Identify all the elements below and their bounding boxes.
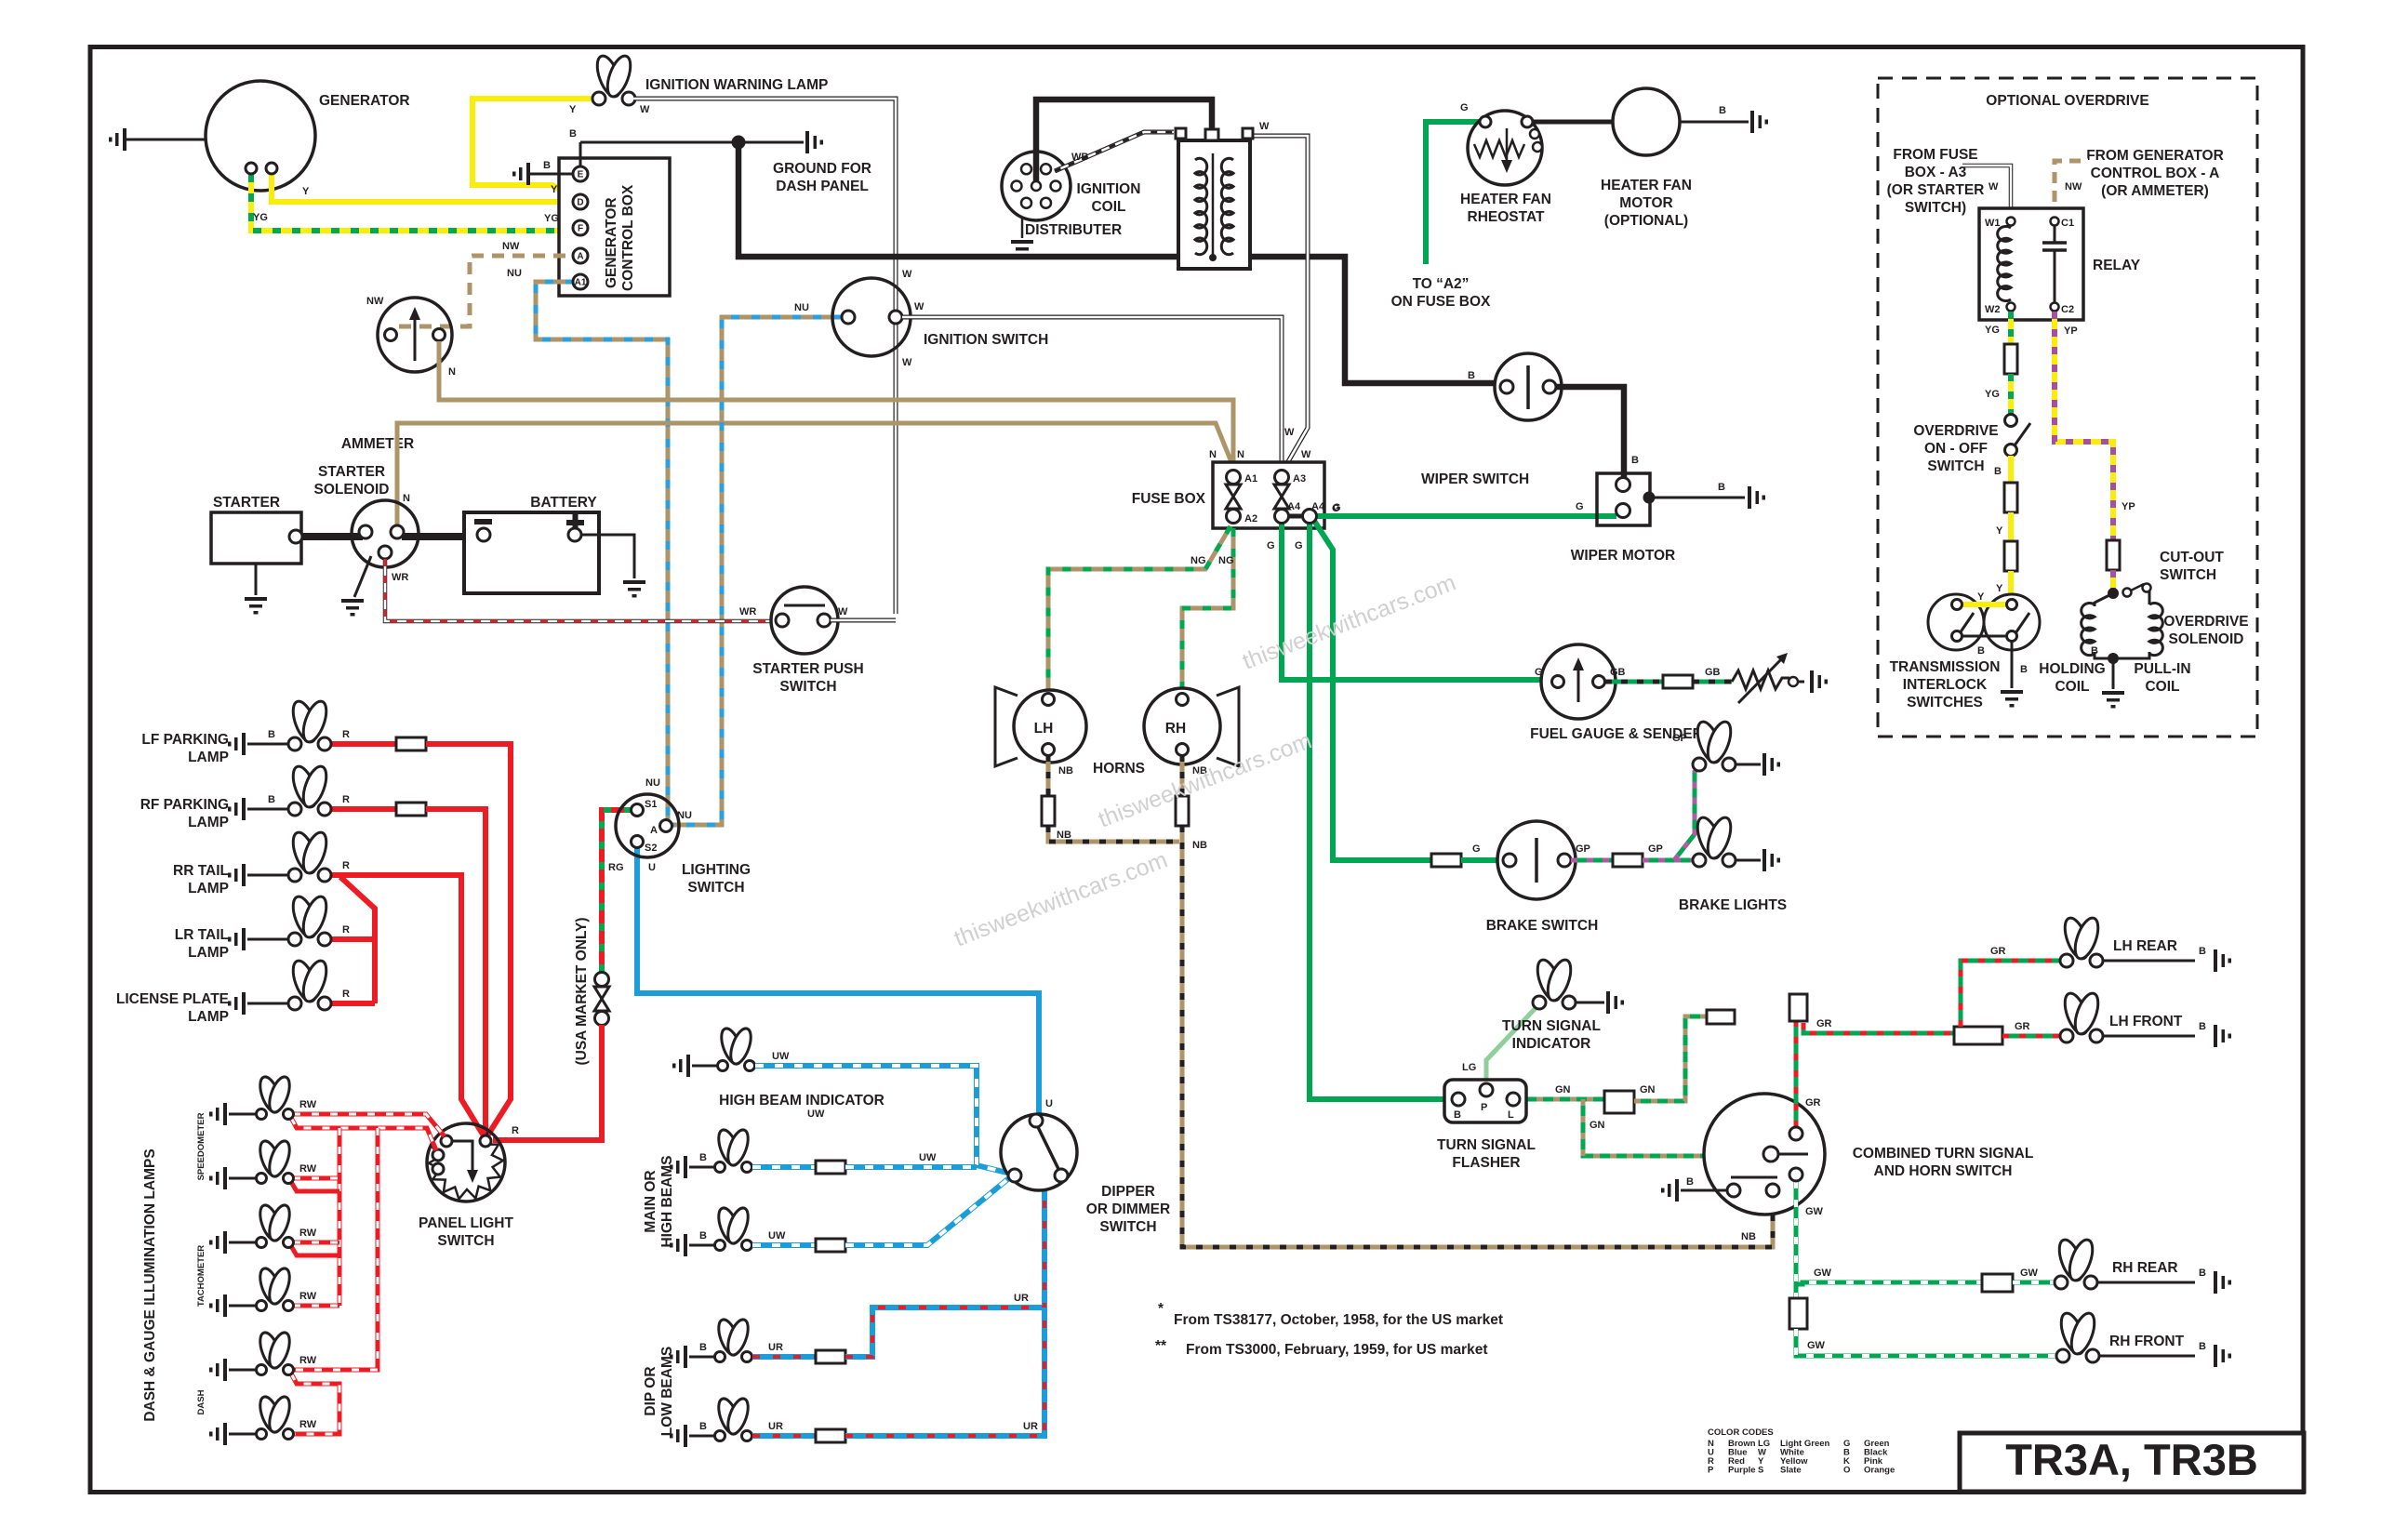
svg-text:C2: C2	[2061, 304, 2074, 315]
main beam lamp row 1	[670, 1127, 752, 1178]
label from fuse box	[1887, 147, 1985, 216]
wire GR combined switch up to LH lamps	[1789, 946, 2063, 1127]
svg-text:GW: GW	[1805, 1206, 1824, 1217]
relay capacitor C1-C2	[2054, 226, 2056, 242]
wire WR solenoid to starter push switch	[385, 559, 778, 621]
svg-text:B: B	[1454, 1109, 1461, 1121]
svg-text:RH: RH	[1165, 721, 1186, 737]
svg-text:G: G	[1535, 667, 1543, 678]
svg-text:B: B	[699, 1152, 707, 1163]
svg-text:GP: GP	[1672, 733, 1687, 744]
svg-text:TURN SIGNAL: TURN SIGNAL	[1502, 1018, 1601, 1034]
svg-text:B: B	[1631, 455, 1639, 466]
dash lamp row 3	[209, 1202, 317, 1254]
svg-text:W1: W1	[1985, 218, 2001, 229]
svg-text:RELAY: RELAY	[2093, 258, 2141, 273]
svg-text:OVERDRIVE: OVERDRIVE	[1913, 423, 1998, 439]
svg-text:SPEEDOMETER: SPEEDOMETER	[196, 1112, 206, 1180]
dash lamp row 4	[209, 1266, 317, 1317]
wire B wiper motor ground	[1655, 482, 1765, 509]
wire GN flasher L to combined switch	[1520, 1010, 1765, 1156]
svg-text:NU: NU	[507, 268, 522, 279]
svg-text:HEATER FAN: HEATER FAN	[1601, 178, 1692, 193]
svg-text:SOLENOID: SOLENOID	[2169, 631, 2244, 647]
fuse on brake feed	[1431, 854, 1461, 867]
footnotes	[1155, 1301, 1503, 1358]
svg-text:N: N	[448, 366, 456, 378]
wire YP relay C2 to cut-out switch	[2055, 312, 2135, 541]
svg-text:B: B	[1468, 370, 1475, 381]
svg-text:MAIN OR: MAIN OR	[643, 1170, 658, 1232]
dash lamp row 5	[209, 1330, 317, 1381]
RR tail lamp	[173, 830, 331, 896]
svg-text:(OR AMMETER): (OR AMMETER)	[2101, 183, 2209, 199]
wire YG fuse to overdrive switch	[1985, 374, 2011, 416]
svg-text:IGNITION WARNING LAMP: IGNITION WARNING LAMP	[645, 77, 828, 93]
svg-text:RW: RW	[299, 1291, 317, 1302]
svg-text:NU: NU	[645, 777, 660, 789]
dip beam lamp row 2	[670, 1396, 752, 1447]
wire Y generator to D	[268, 172, 575, 202]
svg-text:ON - OFF: ON - OFF	[1924, 441, 1988, 457]
svg-text:SWITCHES: SWITCHES	[1907, 695, 1983, 710]
svg-text:G: G	[1333, 502, 1341, 513]
svg-text:LR TAIL: LR TAIL	[175, 927, 229, 943]
svg-text:A4: A4	[1287, 501, 1301, 512]
svg-text:RW: RW	[299, 1163, 317, 1175]
ignition switch	[832, 278, 1048, 356]
svg-text:NG: NG	[1218, 555, 1234, 566]
svg-text:**: **	[1155, 1338, 1167, 1354]
svg-text:COLOR CODES: COLOR CODES	[1708, 1427, 1774, 1438]
fuse box terminals and fuses	[1209, 449, 1341, 524]
svg-text:YG: YG	[1985, 389, 2000, 400]
svg-text:GR: GR	[1990, 946, 2006, 957]
svg-text:DIPPER: DIPPER	[1101, 1184, 1155, 1200]
svg-text:W: W	[914, 301, 924, 312]
svg-text:N: N	[1209, 449, 1217, 460]
wire UR dip row1	[752, 1177, 1056, 1363]
wire W ignition switch east to A3	[902, 301, 1295, 470]
svg-text:WIPER SWITCH: WIPER SWITCH	[1421, 471, 1529, 487]
svg-text:SWITCH): SWITCH)	[1905, 200, 1966, 216]
svg-text:LAMP: LAMP	[188, 750, 229, 765]
svg-text:WR: WR	[392, 572, 408, 583]
svg-text:B: B	[1977, 645, 1985, 657]
svg-text:NW: NW	[2065, 181, 2082, 192]
svg-text:B: B	[2199, 946, 2206, 957]
svg-text:A4: A4	[1311, 501, 1325, 512]
distributor	[1002, 152, 1122, 258]
wire YG generator to F	[251, 174, 574, 231]
svg-text:Y: Y	[302, 186, 310, 197]
wire NB RH horn down to combined switch	[1176, 755, 1773, 1247]
overdrive solenoid	[2039, 591, 2248, 709]
thick cable solenoid to battery	[402, 533, 480, 540]
svg-text:P: P	[1708, 1466, 1714, 1476]
svg-text:BOX - A3: BOX - A3	[1905, 165, 1967, 180]
turn signal flasher	[1437, 1080, 1536, 1171]
svg-text:B: B	[1994, 466, 2002, 477]
combined turn signal and horn switch	[1704, 1094, 2033, 1215]
LH FRONT lamp	[2060, 990, 2231, 1047]
wire WB distributor to coil	[1055, 132, 1174, 171]
svg-text:GN: GN	[1640, 1084, 1656, 1095]
relay	[1979, 208, 2141, 320]
svg-text:RW: RW	[299, 1355, 317, 1366]
svg-text:HOLDING: HOLDING	[2039, 661, 2105, 677]
svg-text:R: R	[342, 924, 350, 936]
RH horn	[1144, 687, 1239, 766]
svg-text:S2: S2	[645, 843, 657, 854]
svg-text:SWITCH: SWITCH	[687, 880, 744, 896]
wire NW: A terminal to ammeter	[366, 241, 574, 330]
svg-text:LOW BEAMS: LOW BEAMS	[659, 1347, 675, 1436]
svg-text:BRAKE LIGHTS: BRAKE LIGHTS	[1679, 897, 1787, 913]
LF parking lamp	[141, 698, 331, 765]
svg-text:UR: UR	[768, 1342, 783, 1353]
wire NW to relay C1	[2055, 161, 2088, 218]
svg-text:B: B	[268, 729, 275, 740]
wire W coil to A3	[1250, 121, 1311, 470]
dipper switch	[1001, 1114, 1170, 1235]
svg-text:COMBINED TURN SIGNAL: COMBINED TURN SIGNAL	[1853, 1146, 2034, 1162]
wire R RR tail to panel switch	[331, 860, 485, 1137]
svg-text:U: U	[1045, 1098, 1053, 1109]
svg-text:RF PARKING: RF PARKING	[140, 797, 229, 813]
svg-text:IGNITION: IGNITION	[1077, 181, 1141, 197]
svg-text:RW: RW	[299, 1419, 317, 1430]
svg-text:TO “A2”: TO “A2”	[1413, 276, 1470, 292]
svg-text:R: R	[342, 729, 350, 740]
wire B ground for E terminal	[512, 160, 574, 185]
svg-text:CONTROL BOX - A: CONTROL BOX - A	[2091, 166, 2220, 181]
svg-text:RW: RW	[299, 1228, 317, 1239]
svg-text:G: G	[1472, 843, 1481, 855]
svg-text:FROM FUSE: FROM FUSE	[1893, 147, 1977, 163]
title box TR3A TR3B	[1960, 1433, 2304, 1492]
svg-text:UR: UR	[768, 1421, 783, 1432]
svg-text:L: L	[1508, 1109, 1514, 1121]
dash lamp row 6	[209, 1394, 317, 1445]
LH horn	[995, 687, 1086, 766]
svg-text:DIP OR: DIP OR	[643, 1366, 658, 1415]
wire N ammeter to fuse A1	[439, 341, 1233, 470]
wire B motor to ground	[1680, 105, 1768, 133]
svg-text:GW: GW	[1807, 1340, 1826, 1351]
svg-text:GP: GP	[1576, 843, 1590, 855]
svg-text:*: *	[1158, 1301, 1164, 1317]
LR tail lamp	[175, 894, 331, 961]
svg-text:GW: GW	[1814, 1268, 1832, 1279]
svg-text:A1: A1	[575, 278, 587, 288]
RH REAR lamp	[2055, 1237, 2231, 1294]
svg-text:LAMP: LAMP	[188, 1009, 229, 1025]
svg-text:STARTER: STARTER	[318, 464, 385, 480]
svg-text:R: R	[342, 860, 350, 871]
node junction dash ground	[732, 136, 746, 150]
lighting switch	[616, 794, 751, 896]
svg-text:NB: NB	[1741, 1231, 1756, 1242]
svg-text:D: D	[577, 198, 583, 208]
USA market fuse bowtie	[594, 973, 609, 1026]
svg-text:TRANSMISSION: TRANSMISSION	[1890, 659, 2001, 675]
svg-text:N: N	[403, 493, 410, 504]
green G wire A4L down to fuel gauge	[1267, 523, 1553, 680]
svg-text:GB: GB	[1705, 667, 1721, 678]
svg-text:OR DIMMER: OR DIMMER	[1086, 1201, 1170, 1217]
svg-text:DASH: DASH	[196, 1389, 206, 1414]
svg-text:R: R	[512, 1125, 519, 1136]
svg-text:W: W	[1989, 181, 1999, 192]
svg-text:F: F	[578, 224, 583, 234]
svg-text:RW: RW	[299, 1099, 317, 1110]
high beam indicator	[672, 1026, 885, 1120]
svg-text:COIL: COIL	[2145, 679, 2179, 695]
svg-text:A3: A3	[1293, 473, 1306, 485]
svg-text:RHEOSTAT: RHEOSTAT	[1468, 209, 1545, 225]
svg-text:W: W	[1301, 449, 1311, 460]
svg-text:LAMP: LAMP	[188, 815, 229, 830]
wire GP brake switch to brake lights	[1571, 733, 1701, 867]
svg-text:LIGHTING: LIGHTING	[682, 862, 751, 878]
battery	[464, 495, 599, 593]
svg-text:G: G	[1460, 102, 1469, 113]
generator control box	[559, 158, 670, 296]
transmission interlock switches	[1890, 591, 2040, 710]
svg-text:NG: NG	[1190, 555, 1206, 566]
svg-text:WR: WR	[739, 606, 756, 617]
wire RW row1 to panel switch	[291, 1114, 445, 1150]
svg-text:LG: LG	[1462, 1062, 1476, 1073]
wire R fuse to panel light switch	[493, 1025, 602, 1140]
cut-out switch	[2108, 550, 2224, 599]
svg-text:W: W	[902, 357, 912, 368]
svg-text:LAMP: LAMP	[188, 881, 229, 896]
svg-text:HORNS: HORNS	[1093, 761, 1145, 777]
svg-text:NU: NU	[794, 302, 809, 313]
svg-text:INDICATOR: INDICATOR	[1512, 1036, 1591, 1052]
wire GW combined switch down to RH lamps	[1789, 1181, 2058, 1356]
ignition warning lamp	[592, 53, 828, 105]
wire UW main row2	[752, 1177, 1010, 1252]
RF parking lamp	[140, 763, 331, 830]
svg-text:NB: NB	[1057, 830, 1071, 841]
green G wire A4 to wiper motor	[1316, 513, 1616, 519]
svg-text:YG: YG	[1985, 325, 2000, 336]
dip beam lamp row 1	[670, 1317, 752, 1368]
svg-text:From TS3000, February, 1959, f: From TS3000, February, 1959, for US mark…	[1186, 1342, 1488, 1358]
svg-text:U: U	[648, 862, 656, 873]
svg-text:AND HORN SWITCH: AND HORN SWITCH	[1874, 1163, 2013, 1179]
green G wire A4R diagonal down to brake switch	[1314, 503, 1432, 860]
svg-text:Orange: Orange	[1864, 1466, 1895, 1476]
wire W starter push switch to ignition (short link)	[831, 618, 896, 623]
svg-text:A1: A1	[1244, 473, 1257, 485]
svg-text:TR3A, TR3B: TR3A, TR3B	[2005, 1435, 2258, 1484]
svg-text:Y: Y	[1977, 591, 1985, 603]
svg-text:PANEL LIGHT: PANEL LIGHT	[419, 1215, 513, 1231]
svg-text:A2: A2	[1244, 513, 1257, 524]
turn signal indicator lamp	[1502, 957, 1624, 1052]
license plate lamp	[116, 958, 331, 1025]
svg-text:COIL: COIL	[1091, 199, 1125, 215]
svg-text:CONTROL BOX: CONTROL BOX	[620, 184, 636, 291]
svg-text:DISTRIBUTER: DISTRIBUTER	[1025, 222, 1122, 238]
svg-text:LH REAR: LH REAR	[2113, 938, 2177, 954]
wire UW indicator to dipper	[755, 1066, 1011, 1174]
svg-text:TURN SIGNAL: TURN SIGNAL	[1437, 1137, 1536, 1153]
wire NB LH horn down	[1042, 755, 1179, 842]
wire R tail lamp chain	[331, 877, 375, 1003]
dash lamp row 2	[209, 1138, 317, 1189]
svg-text:MOTOR: MOTOR	[1619, 195, 1672, 211]
svg-text:GR: GR	[2015, 1021, 2030, 1032]
svg-text:SWITCH: SWITCH	[437, 1233, 494, 1249]
wire NU: A1 terminal to lighting switch A	[507, 268, 668, 820]
svg-text:RH FRONT: RH FRONT	[2109, 1334, 2185, 1349]
wire Y switch to fuse to interlock	[1996, 456, 2017, 601]
wire R LF parking to panel switch	[331, 729, 511, 1137]
wire LG flasher P to indicator	[1462, 1008, 1536, 1084]
wire UW main row1	[752, 1152, 977, 1174]
thick black B wire: junction down and east to wiper switch	[738, 142, 1500, 383]
svg-text:C1: C1	[2061, 218, 2074, 229]
svg-text:STARTER PUSH: STARTER PUSH	[752, 661, 863, 677]
svg-text:LICENSE PLATE: LICENSE PLATE	[116, 991, 229, 1007]
svg-text:SOLENOID: SOLENOID	[314, 482, 390, 498]
svg-text:HIGH BEAM INDICATOR: HIGH BEAM INDICATOR	[719, 1093, 885, 1109]
svg-text:WIPER MOTOR: WIPER MOTOR	[1571, 548, 1676, 564]
ground (generator)	[109, 128, 206, 151]
svg-text:B: B	[2020, 664, 2028, 675]
svg-text:TACHOMETER: TACHOMETER	[196, 1245, 206, 1307]
svg-text:FROM GENERATOR: FROM GENERATOR	[2086, 148, 2224, 164]
svg-text:E: E	[578, 170, 584, 180]
svg-text:W: W	[1259, 121, 1270, 132]
svg-text:W2: W2	[1985, 304, 2001, 315]
svg-text:W: W	[902, 269, 912, 280]
svg-text:UW: UW	[772, 1051, 790, 1062]
svg-text:UW: UW	[919, 1152, 937, 1163]
svg-text:NB: NB	[1192, 840, 1207, 851]
optional overdrive dashed box	[1878, 78, 2257, 737]
label from generator control box	[2086, 148, 2224, 199]
generator	[206, 81, 410, 191]
svg-text:SWITCH: SWITCH	[779, 679, 836, 695]
starter push switch	[752, 587, 863, 695]
svg-text:HEATER FAN: HEATER FAN	[1460, 192, 1551, 207]
generator terminals	[246, 163, 277, 174]
svg-text:R: R	[342, 794, 350, 805]
brake light lower lamp	[1693, 815, 1780, 871]
svg-text:WB: WB	[1071, 152, 1088, 163]
svg-text:GB: GB	[1610, 667, 1626, 678]
svg-text:LH FRONT: LH FRONT	[2109, 1014, 2183, 1029]
svg-text:COIL: COIL	[2055, 679, 2089, 695]
svg-text:UR: UR	[1014, 1293, 1029, 1304]
svg-text:R: R	[342, 989, 350, 1000]
wire Y warning lamp to D	[472, 99, 594, 199]
svg-text:B: B	[2199, 1268, 2206, 1279]
wire W warning lamp to ignition switch and down to starter push switch	[633, 99, 912, 614]
svg-text:From TS38177, October, 1958, f: From TS38177, October, 1958, for the US …	[1174, 1312, 1503, 1328]
svg-text:OVERDRIVE: OVERDRIVE	[2163, 614, 2248, 630]
fuse on YG	[2004, 344, 2017, 374]
ignition coil	[1077, 128, 1253, 269]
svg-text:P: P	[1481, 1102, 1487, 1113]
svg-text:LAMP: LAMP	[188, 945, 229, 961]
RH FRONT lamp	[2056, 1310, 2231, 1367]
svg-text:RH REAR: RH REAR	[2112, 1260, 2178, 1276]
svg-text:G: G	[1295, 540, 1303, 551]
dash lamp row 1	[209, 1074, 317, 1125]
wire U lighting switch S2 to dipper switch	[637, 848, 1053, 1116]
svg-text:BATTERY: BATTERY	[530, 495, 597, 511]
svg-text:SWITCH: SWITCH	[2160, 567, 2216, 583]
svg-text:B: B	[2091, 645, 2098, 657]
svg-text:B: B	[543, 160, 551, 171]
brake light upper lamp	[1693, 719, 1780, 776]
svg-text:N: N	[1237, 449, 1244, 460]
wire YG relay W2 down	[1985, 312, 2011, 343]
heater fan motor	[1601, 88, 1692, 229]
svg-text:Y: Y	[1996, 525, 2003, 537]
wiper switch	[1421, 353, 1562, 487]
svg-text:Y: Y	[1996, 583, 2003, 594]
svg-text:W: W	[640, 104, 650, 115]
svg-text:A: A	[577, 252, 583, 262]
svg-text:GR: GR	[1805, 1097, 1821, 1109]
svg-text:B: B	[268, 794, 275, 805]
svg-text:(USA MARKET ONLY): (USA MARKET ONLY)	[574, 917, 590, 1065]
svg-text:LH: LH	[1034, 721, 1054, 737]
svg-text:W: W	[838, 606, 848, 617]
wire NG A2 to horns	[1048, 526, 1234, 694]
svg-text:ON FUSE BOX: ON FUSE BOX	[1391, 294, 1491, 310]
wire N solenoid to fuse A1	[397, 423, 1233, 525]
svg-text:GROUND FOR: GROUND FOR	[773, 161, 871, 177]
svg-text:W: W	[1284, 427, 1295, 438]
wire G heater rheostat to A2 (open end)	[1391, 102, 1491, 310]
wire NU: ignition switch to lighting switch A	[672, 302, 842, 825]
svg-text:UW: UW	[768, 1230, 786, 1241]
svg-text:NB: NB	[1058, 765, 1073, 777]
svg-text:AMMETER: AMMETER	[341, 436, 414, 452]
relay coil W1-W2	[1998, 226, 2011, 300]
starter	[211, 495, 302, 615]
overdrive on-off switch	[1913, 415, 2030, 478]
svg-text:G: G	[1576, 501, 1584, 512]
svg-text:RG: RG	[608, 862, 624, 873]
color codes	[1708, 1427, 1895, 1476]
combined switch terminals	[1661, 1127, 1808, 1201]
wire UR dip row2	[752, 1308, 1044, 1442]
wiper motor	[1571, 473, 1676, 564]
svg-text:NW: NW	[502, 241, 520, 252]
svg-text:GN: GN	[1555, 1084, 1571, 1095]
wire RW column B rows5-6	[291, 1128, 378, 1434]
svg-text:FUSE BOX: FUSE BOX	[1132, 491, 1206, 507]
fuse box	[1132, 462, 1324, 528]
svg-text:IGNITION SWITCH: IGNITION SWITCH	[924, 332, 1048, 348]
svg-text:SWITCH: SWITCH	[1927, 458, 1984, 474]
starter solenoid	[314, 464, 419, 617]
svg-text:Purple: Purple	[1728, 1466, 1756, 1476]
svg-text:B: B	[569, 128, 577, 139]
green G wire A4R down to flasher B	[1295, 523, 1452, 1099]
svg-text:DASH PANEL: DASH PANEL	[776, 179, 869, 194]
